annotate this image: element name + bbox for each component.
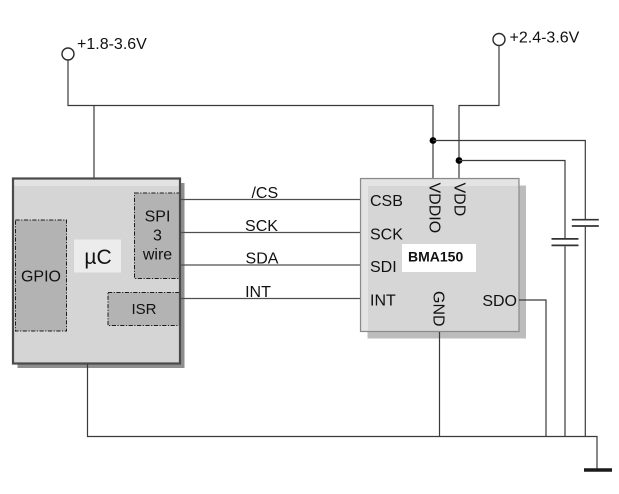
svg-text:wire: wire	[142, 247, 172, 264]
wire SCK	[181, 232, 361, 234]
SPI 3 wire block	[135, 193, 180, 279]
svg-text:CSB: CSB	[370, 193, 403, 210]
terminal +1.8-3.6V	[62, 36, 147, 60]
svg-text:BMA150: BMA150	[408, 249, 463, 265]
node VDDIO junction	[430, 137, 437, 144]
svg-text:+1.8-3.6V: +1.8-3.6V	[77, 36, 147, 53]
svg-text:3: 3	[153, 228, 162, 245]
wire VDD supply rail	[459, 46, 499, 181]
GPIO block	[16, 220, 67, 331]
wire capacitor C2 to ground rail	[564, 246, 566, 436]
wire SDA	[181, 264, 361, 266]
wire VDDIO supply rail	[68, 60, 433, 180]
BMA150 U2 shadow	[368, 186, 527, 339]
svg-text:VDD: VDD	[451, 183, 468, 217]
microcontroller U1 border	[13, 179, 180, 364]
wire branch to uC supply	[93, 106, 95, 180]
microcontroller U1 body	[13, 179, 180, 364]
svg-text:SCK: SCK	[245, 218, 278, 235]
wire VDDIO to capacitor C1	[433, 141, 585, 220]
microcontroller U1 label	[74, 240, 121, 273]
wire INT	[181, 298, 361, 300]
ground symbol	[584, 468, 612, 471]
ISR block	[108, 293, 180, 326]
svg-text:SCK: SCK	[370, 227, 403, 244]
terminal +2.4-3.6V	[493, 30, 580, 47]
wire /CS	[181, 199, 361, 201]
svg-text:SDO: SDO	[482, 293, 517, 310]
svg-text:µC: µC	[84, 246, 111, 269]
svg-text:VDDIO: VDDIO	[426, 183, 443, 234]
svg-text:INT: INT	[245, 284, 271, 301]
wire SDO to ground rail	[519, 300, 546, 437]
svg-text:GND: GND	[429, 291, 446, 327]
capacitor C2	[552, 239, 579, 246]
BMA150 U2 label	[402, 244, 476, 272]
svg-text:ISR: ISR	[131, 301, 156, 318]
capacitor C1	[572, 220, 599, 226]
wire uC GPIO to ground rail	[88, 364, 598, 469]
wire GND pin to ground rail	[439, 332, 441, 437]
svg-text:SDA: SDA	[246, 251, 279, 268]
wire capacitor C1 to ground rail	[584, 227, 586, 437]
microcontroller U1 shadow	[18, 183, 185, 368]
svg-text:/CS: /CS	[251, 185, 278, 202]
wire VDD to capacitor C2	[459, 161, 565, 239]
svg-text:SDI: SDI	[370, 259, 397, 276]
svg-text:INT: INT	[370, 293, 396, 310]
svg-text:SPI: SPI	[145, 209, 171, 226]
svg-text:+2.4-3.6V: +2.4-3.6V	[510, 30, 580, 47]
BMA150 U2 body	[361, 179, 520, 332]
svg-text:GPIO: GPIO	[21, 269, 61, 286]
node VDD junction	[456, 157, 463, 164]
